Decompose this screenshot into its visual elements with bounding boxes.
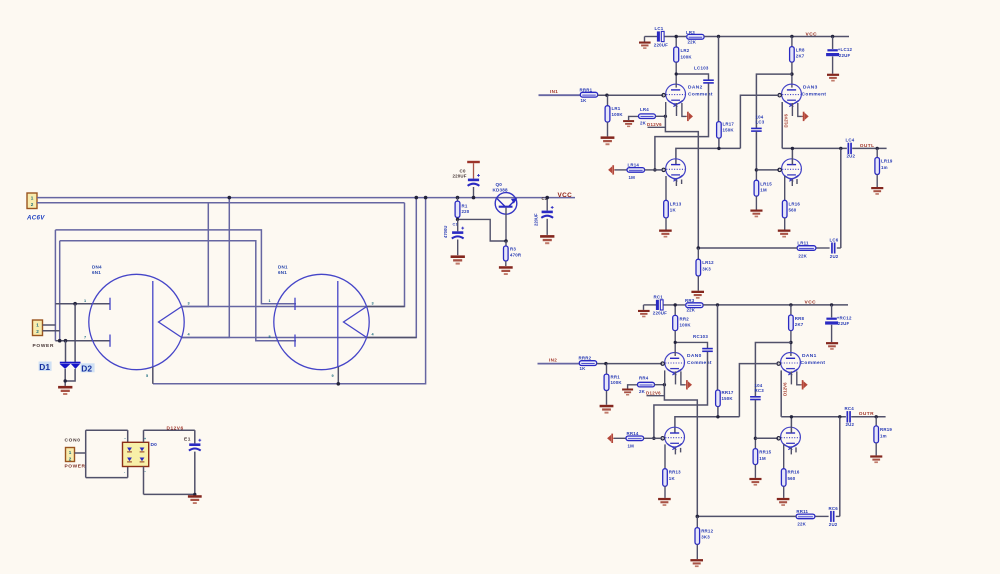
svg-text:22K: 22K [798, 253, 807, 258]
junction rail/LR8 [790, 35, 793, 38]
svg-text:1M: 1M [759, 456, 766, 461]
svg-text:RC3: RC3 [755, 388, 765, 393]
capacitor LC6 2U2 [830, 237, 841, 258]
junction RR2/rail [674, 303, 677, 306]
svg-text:~: ~ [144, 470, 146, 474]
wire grid lower-left [654, 437, 663, 439]
svg-text:1m: 1m [881, 165, 888, 170]
capacitor RC4 2U2 [845, 406, 855, 427]
ground below LR15 [750, 210, 762, 218]
label C2 [542, 196, 548, 201]
wire DN4 pin4 riser [181, 198, 416, 338]
svg-text:LC1: LC1 [655, 26, 664, 31]
resistor LR16 560 [782, 200, 800, 218]
wire RC1 to rail [663, 304, 685, 306]
wire left vertical A [54, 230, 56, 341]
svg-text:RC103: RC103 [693, 334, 708, 339]
heater legs DAN1 [781, 370, 801, 416]
wire C1 to ground [457, 240, 459, 256]
svg-text:1M: 1M [629, 175, 636, 180]
label OUTL [860, 143, 875, 149]
junction cathode/RR4 [663, 383, 666, 386]
resistor LR2 100K [674, 37, 693, 63]
svg-text:RC4: RC4 [845, 406, 855, 411]
capacitor RC3 104 [750, 383, 764, 401]
junction cathode bus [337, 382, 341, 386]
label VCC rail [806, 31, 818, 37]
resistor LR3 22K [686, 30, 704, 45]
label RC103 [693, 334, 708, 339]
wire IN1 input [539, 94, 581, 96]
svg-text:6N1: 6N1 [92, 270, 101, 275]
wire LR14 to grid [645, 169, 655, 171]
wire D2 anode [74, 304, 76, 362]
power arrow at RR14 [607, 434, 614, 443]
connector POWER (2-pin) [33, 320, 43, 336]
svg-text:LR12: LR12 [702, 260, 714, 265]
svg-text:150K: 150K [722, 396, 734, 401]
label VCC (regulator output) [558, 192, 573, 199]
svg-text:1: 1 [84, 299, 86, 303]
wire output right [851, 416, 885, 418]
svg-text:RR2: RR2 [680, 316, 690, 321]
ground below R3 [499, 266, 513, 275]
capacitor LC103 [676, 74, 714, 84]
svg-text:2U2: 2U2 [846, 422, 855, 427]
power arrow at DAN2 cathode [686, 112, 693, 121]
junction rail/LC12 [831, 35, 834, 38]
junction anode2/out [791, 147, 794, 150]
svg-text:1m: 1m [880, 433, 887, 438]
junction input/LR1 [605, 94, 608, 97]
svg-text:22K: 22K [797, 522, 806, 527]
svg-text:D12V6: D12V6 [647, 122, 662, 127]
wire gnd to LC1 [645, 36, 658, 38]
svg-text:LC103: LC103 [694, 66, 709, 71]
svg-text:1M: 1M [628, 444, 635, 449]
svg-text:2K: 2K [640, 121, 647, 126]
label D12V6 stub [646, 391, 664, 396]
capacitor RC103 [675, 342, 713, 352]
capacitor RC1 220UF [656, 300, 663, 310]
power arrow at DAN3 cathode [802, 112, 809, 121]
svg-text:C1: C1 [453, 223, 458, 227]
svg-text:100K: 100K [612, 112, 624, 117]
wire anode line [676, 148, 741, 164]
transistor Q0 [495, 193, 517, 215]
wire inner loop to DN1 pin5 [60, 241, 296, 341]
svg-text:RR16: RR16 [788, 470, 800, 475]
junction anode/LC103 [675, 72, 678, 75]
svg-text:220: 220 [462, 209, 470, 214]
svg-text:+RC12: +RC12 [837, 316, 852, 321]
bridge pin marks [124, 437, 146, 474]
svg-text:1: 1 [36, 322, 39, 327]
grid entry ring lower-right [778, 168, 781, 171]
wire DN4 pin7 [55, 340, 110, 342]
resistor LR15 1M [754, 170, 772, 196]
capacitor LC3 104 [751, 114, 765, 132]
junction grid/LC103 [653, 168, 656, 171]
wire LR12 to ground [697, 276, 699, 291]
label RC1 [653, 294, 667, 315]
wire RR13 to ground [664, 486, 666, 498]
label AC6V [26, 215, 45, 222]
junction on net H1 at x416 [415, 196, 419, 200]
wire grid riser to DAN3 [740, 95, 779, 148]
ground below RC12 [826, 342, 838, 350]
wire DN1 cathode stub [337, 367, 339, 384]
ground below RR19 [870, 455, 882, 463]
capacitor C1 4700U [452, 219, 464, 238]
ground at LC1 [639, 37, 651, 49]
svg-text:D2: D2 [81, 363, 92, 373]
junction on net H1 at x229 [228, 196, 232, 200]
svg-text:LR4: LR4 [640, 107, 649, 112]
heater legs lower-right [785, 176, 797, 200]
resistor LR8 2K7 [790, 37, 805, 63]
label D12V6 stub [647, 122, 665, 127]
wire C0 to rail [473, 187, 475, 198]
heater legs DAN3 [782, 102, 802, 148]
wire RC6 to RR11 [815, 515, 829, 517]
junction R1/rail [456, 196, 460, 200]
svg-text:3K3: 3K3 [701, 535, 710, 540]
label DN4 [92, 265, 102, 276]
wire RR17 bottom [717, 407, 719, 417]
svg-text:LR17: LR17 [723, 121, 735, 126]
wire LR19 to ground [876, 175, 878, 188]
wire LR16 to ground [784, 218, 786, 230]
svg-text:RRR1: RRR1 [580, 87, 593, 92]
wire DN1 pin4 stub [367, 337, 416, 339]
svg-text:VCC: VCC [805, 300, 817, 306]
bridge rectifier D0 [123, 442, 149, 466]
label DAN1 [801, 353, 826, 366]
label IN1 [550, 89, 558, 94]
wire RR19 to ground [875, 443, 877, 456]
capacitor LC12 22UF [826, 37, 852, 58]
capacitor LC4 2U2 [846, 138, 856, 159]
svg-text:DAN3: DAN3 [803, 85, 818, 91]
ground below RR12 [690, 559, 703, 567]
wire RC3 to lower grid [754, 400, 756, 439]
junction LR19/out [876, 147, 879, 150]
grid entry ring lower-left [661, 437, 664, 440]
svg-text:RR1: RR1 [611, 374, 621, 379]
ground below C2 [540, 235, 554, 244]
wire LC103 to lower grid [655, 83, 709, 169]
resistor LR4 2K [639, 107, 656, 126]
junction feedback tap [839, 147, 842, 150]
svg-text:1: 1 [269, 299, 271, 303]
wire grid lower-left [655, 169, 664, 171]
junction feedback/LR12 [697, 246, 701, 250]
svg-text:2K7: 2K7 [795, 322, 804, 327]
wire feedback to cathode [697, 515, 796, 517]
ground below RR13 [658, 498, 671, 506]
junction rail/RR17 [716, 303, 719, 306]
power arrow at DAN1 cathode [801, 380, 808, 389]
svg-text:9: 9 [332, 374, 334, 378]
junction anode/RC3 [789, 341, 792, 344]
svg-text:150K: 150K [723, 127, 735, 132]
junction RR17/anode line [716, 415, 719, 418]
svg-text:220UF: 220UF [653, 311, 667, 316]
triode DAN2 [666, 84, 686, 107]
label C0 [453, 168, 467, 178]
label LC103 [694, 66, 709, 71]
junction anode2/out [790, 415, 793, 418]
junction rail/LR17 [717, 35, 720, 38]
wire Q0 emitter to R3 [505, 208, 507, 241]
wire LR1 to ground [607, 122, 609, 136]
svg-text:2: 2 [31, 202, 34, 207]
wire left vertical B [59, 241, 61, 341]
label POWER [33, 343, 55, 349]
resistor RR15 1M [753, 438, 772, 464]
wire RR4 to cathode [655, 384, 665, 386]
svg-text:RRR2: RRR2 [579, 356, 592, 361]
triode DAN0 [665, 353, 685, 376]
power arrow at DAN0 cathode [685, 380, 692, 389]
wire output line [782, 148, 847, 164]
ground below E1 [188, 495, 202, 504]
svg-text:+LC12: +LC12 [838, 47, 853, 52]
junction diode gnd [63, 379, 66, 382]
ground below LR13 [659, 230, 672, 238]
resistor R1 220 [455, 198, 470, 218]
ground below C1 [451, 255, 465, 264]
svg-text:D12V6: D12V6 [646, 391, 661, 396]
wire DN4 cathode stub [152, 367, 154, 384]
svg-text:2: 2 [69, 457, 72, 462]
heater legs lower-left [666, 176, 682, 200]
label D12V6 (supply net) [167, 426, 184, 432]
heater legs lower-left [665, 444, 681, 468]
connector J1 AC6V (2-pin) [27, 193, 37, 209]
triode lower-right [782, 159, 802, 182]
svg-text:LR13: LR13 [670, 201, 682, 206]
svg-text:3: 3 [372, 302, 374, 306]
wire LR13 to ground [665, 218, 667, 230]
heater legs DAN2 [666, 102, 687, 116]
wire gnd to RC1 [644, 304, 657, 306]
ground at RC1 [638, 305, 650, 317]
resistor RR12 3K3 [695, 516, 714, 544]
wire grid lower-right [756, 169, 779, 171]
ground below LR19 [871, 187, 883, 195]
svg-text:LC3: LC3 [756, 120, 765, 125]
grid entry ring DAN3 [778, 94, 781, 97]
wire anode to RC3 [755, 343, 791, 397]
wire RR8 to anode [790, 331, 792, 356]
grid entry ring lower-right [777, 437, 780, 440]
capacitor C2 220UF [534, 198, 554, 226]
wire feedback vertical [840, 148, 842, 248]
wire LR4 to cathode [656, 115, 666, 117]
label C1 4700U [443, 223, 458, 239]
svg-text:IN1: IN1 [550, 89, 558, 94]
wire D1 anode [65, 341, 67, 362]
resistor RRR1 1K [580, 87, 598, 103]
resistor RR2 100K [673, 305, 692, 331]
svg-text:LC4: LC4 [846, 138, 855, 143]
wire VCC rail [704, 36, 849, 38]
svg-text:2U2: 2U2 [830, 254, 839, 259]
wire output line [781, 417, 846, 433]
junction feedback tap [838, 415, 841, 418]
wire anode to LC3 [756, 74, 792, 128]
svg-text:100K: 100K [680, 323, 692, 328]
tube DN1 6N1 (heater section) [274, 274, 369, 369]
svg-text:22K: 22K [688, 39, 697, 44]
svg-text:220UF: 220UF [654, 42, 668, 47]
wire RR2 to anode [674, 331, 676, 356]
svg-text:Comment: Comment [801, 360, 826, 366]
label DN1 [278, 265, 288, 276]
resistor RR14 1M [614, 431, 644, 449]
ground below RR16 [777, 498, 790, 506]
junction grid/RC103 [652, 437, 655, 440]
resistor LR13 1K [664, 200, 682, 218]
label D0 [151, 442, 158, 448]
svg-text:6N1: 6N1 [278, 270, 287, 275]
wire LC3 to lower grid [755, 131, 757, 170]
svg-text:1K: 1K [581, 98, 588, 103]
wire bridge - to E1 bottom [144, 452, 195, 495]
label E1 [184, 437, 191, 443]
svg-text:POWER: POWER [65, 464, 86, 470]
diode D2 [70, 362, 80, 369]
junction anode/LC3 [790, 72, 793, 75]
wire feedback to cathode [698, 247, 797, 249]
svg-text:RR8: RR8 [795, 316, 805, 321]
svg-text:220UF: 220UF [534, 213, 539, 226]
wire LR2 to anode [675, 62, 677, 87]
resistor LR11 22K [797, 241, 816, 259]
svg-text:LR2: LR2 [681, 48, 690, 53]
junction grid2/LC3 [755, 168, 758, 171]
svg-text:1M: 1M [760, 188, 767, 193]
svg-text:LR1: LR1 [612, 106, 621, 111]
label LC1 [654, 26, 668, 47]
svg-text:3: 3 [188, 302, 190, 306]
label CON0 [65, 437, 81, 443]
grid entry ring lower-left [662, 168, 665, 171]
resistor LR1 100K [605, 95, 623, 122]
svg-text:560: 560 [789, 208, 797, 213]
ground below D1 D2 [58, 386, 72, 395]
svg-text:RR17: RR17 [722, 390, 734, 395]
wire DN4 pin1 [55, 303, 110, 305]
resistor R3 470R [504, 241, 522, 261]
wire VCC rail [703, 304, 848, 306]
wire bridge + to E1 [144, 430, 195, 443]
svg-text:4700U: 4700U [443, 226, 448, 238]
svg-text:DAN0: DAN0 [687, 353, 702, 359]
svg-text:R3: R3 [510, 247, 516, 252]
svg-text:22UF: 22UF [839, 53, 851, 58]
svg-text:LR3: LR3 [686, 30, 695, 35]
label DAN3 [802, 85, 827, 98]
wire LC12 to ground [832, 56, 834, 73]
resistor RR17 150K [716, 305, 734, 407]
ground below LR12 [691, 291, 704, 299]
svg-text:LR15: LR15 [760, 181, 772, 186]
svg-text:22UF: 22UF [838, 321, 850, 326]
svg-text:E1: E1 [184, 437, 191, 443]
svg-text:RR12: RR12 [701, 528, 713, 533]
label D12V6 vertical at DAN3 [783, 114, 788, 128]
svg-text:100K: 100K [611, 380, 623, 385]
svg-text:RR11: RR11 [796, 509, 808, 514]
svg-text:RR4: RR4 [639, 375, 649, 380]
wire IN2 input [538, 363, 580, 365]
label POWER (CON0) [65, 464, 86, 470]
junction LR2/rail [675, 35, 678, 38]
triode DAN1 [781, 353, 801, 376]
ground below LR16 [778, 230, 791, 238]
wire feedback vertical [839, 417, 841, 517]
grid entry ring DAN1 [777, 362, 780, 365]
label OUTR [859, 411, 874, 417]
junction cathode/LR4 [664, 115, 667, 118]
svg-text:IN2: IN2 [549, 357, 557, 362]
ground below LR1 [601, 136, 615, 145]
ground below LC12 [827, 74, 839, 82]
wire LC1 to rail [664, 36, 686, 38]
svg-text:7: 7 [84, 336, 86, 340]
svg-text:DN4: DN4 [92, 265, 102, 270]
power arrow at LR14 [608, 165, 615, 174]
heater legs DAN0 [665, 370, 686, 384]
grid entry ring DAN2 [662, 94, 665, 97]
triode DAN3 [782, 84, 802, 107]
svg-text:1K: 1K [580, 366, 587, 371]
wire DN4 pin3 riser [181, 203, 405, 307]
label IN2 [549, 357, 557, 362]
svg-text:1K: 1K [669, 476, 676, 481]
resistor LR12 3K3 [696, 248, 714, 276]
junction on net H1 at x425 [424, 196, 428, 200]
svg-text:D12V6: D12V6 [782, 382, 787, 396]
wire input to grid [598, 94, 664, 96]
svg-text:LR11: LR11 [797, 241, 809, 246]
resistor RR16 560 [781, 469, 799, 487]
tube DN4 6N1 (heater section) [89, 274, 184, 369]
svg-text:D0: D0 [151, 442, 158, 448]
svg-text:100K: 100K [681, 54, 693, 59]
connector CON0 POWER (2-pin) [66, 448, 75, 462]
svg-text:+: + [144, 437, 146, 441]
junction feedback/RR12 [696, 515, 700, 519]
wire AC6V pin1 to regulator rail (net H1) [37, 197, 575, 199]
wire RR16 to ground [783, 486, 785, 498]
capacitor RC12 22UF [825, 305, 852, 326]
wire RR1 to ground [606, 391, 608, 405]
svg-text:LR16: LR16 [789, 201, 801, 206]
triode lower-left [665, 427, 685, 450]
resistor RR1 100K [604, 364, 622, 391]
svg-text:RR15: RR15 [759, 450, 771, 455]
diode D1 [60, 362, 71, 369]
wire RR12 to ground [696, 544, 698, 559]
wire LR15 to ground [755, 196, 757, 209]
svg-text:220UF: 220UF [453, 173, 467, 178]
wire DN1 pin3 stub [367, 306, 405, 308]
wire R3 to ground [505, 261, 507, 266]
